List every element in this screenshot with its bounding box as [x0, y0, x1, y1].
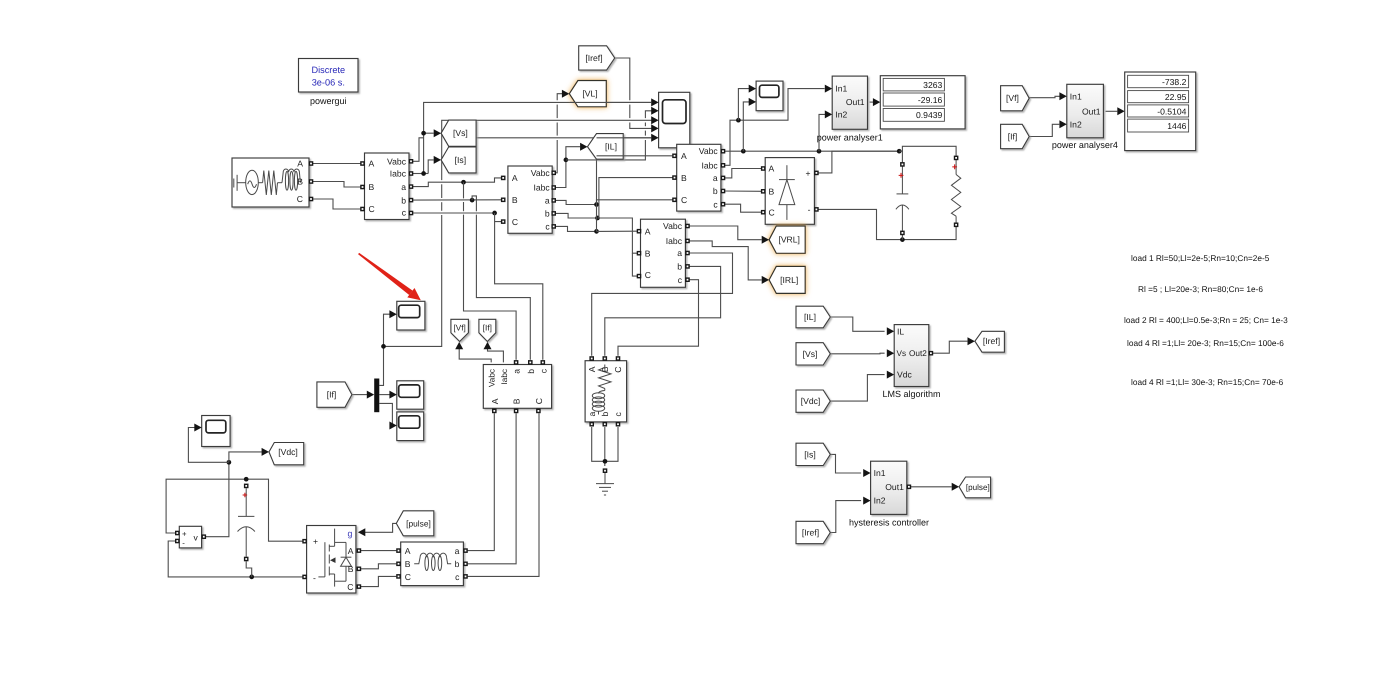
wire rail up to load resistor top [902, 146, 956, 156]
wire load RL outputs to ground node [592, 427, 605, 461]
from tag Vdc (LMS group) [796, 390, 830, 412]
svg-text:B: B [512, 195, 518, 205]
svg-text:In1: In1 [874, 468, 886, 478]
svg-text:B: B [405, 559, 411, 569]
node scope1 tap [736, 118, 741, 123]
node on Vs wire [421, 131, 426, 136]
svg-text:[If]: [If] [483, 324, 492, 333]
svg-text:+: + [182, 530, 187, 539]
wire M1 Iabc to goto Is [428, 160, 434, 174]
goto tag Vs [441, 120, 476, 146]
svg-text:a: a [401, 182, 406, 192]
wire M1 c to block M2 C with tap c [413, 212, 495, 214]
wire tap c down to M5 c [495, 222, 543, 360]
goto tag Is [441, 147, 476, 173]
powergui block [299, 59, 359, 107]
svg-text:Iabc: Iabc [533, 183, 550, 193]
wire vmeter plus to DC top rail [166, 479, 303, 541]
svg-text:C: C [347, 582, 353, 592]
from tag If (analyser4 group) [1001, 124, 1030, 148]
svg-text:+: + [952, 162, 958, 173]
hysteresis controller subsystem [849, 461, 929, 527]
svg-text:b: b [526, 369, 536, 374]
wire M2 a jog to node a [556, 200, 597, 204]
wire M1 a to block M2 A with PCC tap a [413, 178, 501, 187]
svg-text:C: C [534, 398, 544, 404]
wire riser b to M3 B [598, 178, 673, 218]
goto tag Vf (rotated down) [451, 319, 469, 341]
wire goto Iref to scope in4 (with gaps) [615, 58, 630, 100]
svg-text:A: A [645, 226, 651, 236]
wire from If tag to demux [352, 394, 368, 396]
svg-text:Iabc: Iabc [666, 236, 683, 246]
svg-text:In2: In2 [835, 109, 847, 119]
svg-text:c: c [538, 368, 548, 373]
wire riser c to M3 C [597, 200, 673, 232]
svg-text:[IRL]: [IRL] [780, 275, 798, 285]
svg-text:A: A [369, 159, 375, 169]
wire from pulse to inverter g [365, 523, 397, 532]
svg-text:B: B [348, 564, 354, 574]
svg-text:C: C [645, 270, 651, 280]
display block display1 [880, 76, 965, 129]
node ground junction [603, 459, 608, 464]
svg-text:b: b [401, 195, 406, 205]
svg-text:Vabc: Vabc [531, 168, 551, 178]
svg-text:Out1: Out1 [846, 97, 865, 107]
svg-text:A: A [348, 546, 354, 556]
svg-text:+: + [242, 490, 247, 500]
goto tag Vdc (bottom left) [269, 443, 304, 465]
svg-text:C: C [297, 194, 303, 204]
wire source C to block M1 [313, 199, 361, 209]
wire filter a up to M5 A [468, 413, 495, 550]
svg-text:Out2: Out2 [909, 349, 927, 358]
svg-text:A: A [490, 398, 500, 404]
power analyser4 subsystem [1052, 84, 1118, 150]
svg-text:a: a [512, 369, 522, 374]
svg-text:power analyser4: power analyser4 [1052, 140, 1118, 150]
svg-text:-0.5104: -0.5104 [1157, 106, 1186, 116]
svg-text:[Vdc]: [Vdc] [801, 396, 821, 406]
svg-text:[Vf]: [Vf] [454, 324, 466, 333]
from tag Iref (top) [579, 46, 615, 70]
wire demux out1 to scope in3 long riser [384, 215, 442, 346]
svg-text:power analyser1: power analyser1 [817, 132, 883, 142]
wire hysteresis Out1 to goto pulse [909, 486, 952, 488]
svg-text:[Iref]: [Iref] [983, 336, 1000, 346]
svg-text:[pulse]: [pulse] [966, 483, 990, 492]
wire M2 c jog to node c [556, 226, 597, 231]
svg-text:A: A [587, 366, 597, 372]
wire hysteresis In1 from Is tag [830, 454, 861, 473]
svg-text:[VRL]: [VRL] [778, 235, 800, 245]
wire Vf tag to analyser4 In1 [1029, 96, 1060, 97]
goto tag IRL (highlighted) [769, 266, 805, 293]
wire filter b up to M5 B [468, 413, 516, 564]
wire node a riser to M3 A (drawn over IL tag) [597, 155, 673, 157]
three-phase V-I measurement block M4 [641, 219, 686, 287]
wire node to goto Vdc [229, 452, 262, 462]
wire scope in1 segment over VL tag [570, 101, 652, 103]
wire M1 Vabc to scope in5 (stub) [413, 138, 423, 162]
svg-text:c: c [455, 572, 460, 582]
svg-text:load 4 Rl =1;Ll= 30e-3; Rn=15;: load 4 Rl =1;Ll= 30e-3; Rn=15;Cn= 70e-6 [1131, 377, 1284, 387]
node scope2 tap [741, 149, 746, 154]
svg-text:B: B [600, 366, 610, 372]
svg-text:+: + [805, 169, 810, 179]
IGBT inverter block [307, 526, 356, 594]
svg-text:B: B [369, 182, 375, 192]
node DC bottom rail capacitor tap [249, 575, 254, 580]
node on Iabc wire [421, 171, 426, 176]
wire node b horizontal to M4 bus [598, 218, 638, 253]
wire M3 a to bridge A [723, 169, 761, 178]
three-phase V-I measurement block M2 [508, 166, 552, 233]
svg-text:+: + [313, 537, 318, 547]
three-phase V-I measurement block M1 [365, 153, 410, 220]
svg-text:load 4 Rl =1;Ll= 20e-3; Rn=15;: load 4 Rl =1;Ll= 20e-3; Rn=15;Cn= 100e-6 [1127, 338, 1284, 348]
svg-text:a: a [545, 196, 550, 206]
svg-text:b: b [600, 412, 610, 417]
wire source B to block M1 [313, 182, 361, 188]
svg-text:A: A [512, 173, 518, 183]
from tag pulse (mirrored, to inverter g) [396, 511, 434, 536]
svg-text:Discrete: Discrete [311, 65, 345, 75]
svg-text:B: B [512, 398, 522, 404]
svg-text:hysteresis controller: hysteresis controller [849, 517, 929, 527]
svg-text:b: b [545, 209, 550, 219]
svg-text:C: C [681, 195, 687, 205]
display block display4 [1125, 72, 1196, 151]
goto tag VRL (highlighted) [769, 226, 805, 253]
svg-text:1446: 1446 [1167, 121, 1186, 131]
voltage measurement vmeter block [179, 526, 201, 548]
goto tag Iref (LMS output) [975, 331, 1005, 352]
svg-text:[If]: [If] [1008, 132, 1018, 142]
svg-text:b: b [677, 262, 682, 272]
svg-text:In1: In1 [835, 84, 847, 94]
wire demux out1 up to scope A [379, 314, 389, 385]
node DC rail bottom [900, 237, 905, 242]
wire M2 Iabc riser to goto IL [556, 147, 581, 188]
three-phase V-I measurement block M3 [677, 144, 721, 211]
svg-text:C: C [769, 207, 775, 217]
svg-text:[Is]: [Is] [804, 449, 815, 459]
svg-text:c: c [678, 275, 683, 285]
svg-text:[Iref]: [Iref] [802, 528, 819, 538]
arrows into big scope [651, 98, 658, 106]
svg-text:In2: In2 [874, 496, 886, 506]
wire M4 bus down to C [632, 253, 637, 276]
svg-text:Iabc: Iabc [390, 169, 407, 179]
svg-text:[If]: [If] [327, 390, 337, 400]
svg-text:B: B [681, 173, 687, 183]
svg-text:A: A [681, 151, 687, 161]
svg-text:load 2 Rl = 400;Ll=0.5e-3;Rn =: load 2 Rl = 400;Ll=0.5e-3;Rn = 25; Cn= 1… [1124, 315, 1288, 325]
node tap c [492, 211, 497, 216]
wire LMS IL from tag [830, 317, 884, 331]
wire riser a to M3 A level [596, 156, 598, 205]
svg-text:[Vs]: [Vs] [803, 349, 818, 359]
svg-text:g: g [348, 529, 353, 539]
wire filter c up to M5 C [468, 413, 539, 576]
svg-text:C: C [369, 204, 375, 214]
svg-text:B: B [297, 177, 303, 187]
node analyser In2 tap [817, 149, 822, 154]
wire M3 Vabc rail to DC load [723, 150, 899, 152]
wire M2 b jog to node b [556, 213, 598, 218]
svg-text:C: C [405, 572, 411, 582]
svg-text:IL: IL [897, 326, 904, 336]
svg-text:a: a [713, 173, 718, 183]
svg-text:[Vs]: [Vs] [453, 128, 468, 138]
wire rail to output capacitor [899, 151, 902, 162]
svg-text:B: B [769, 187, 775, 197]
wire tap up to small scope in2 [743, 102, 750, 151]
DC link capacitor branch [244, 484, 249, 489]
wire node c horizontal to M4 A [597, 230, 638, 232]
wire inverter B to filter B [361, 564, 396, 569]
svg-text:[Is]: [Is] [455, 155, 466, 165]
svg-text:c: c [613, 412, 623, 417]
wire node to scope Vdc [188, 428, 229, 463]
wire M5 Vabc to goto Vf [459, 345, 491, 363]
wire M4 a to load RL A [592, 253, 733, 356]
wire M3 b to bridge B [723, 190, 761, 192]
svg-text:In1: In1 [1070, 91, 1082, 101]
svg-text:Vabc: Vabc [488, 369, 497, 387]
svg-text:Out1: Out1 [1082, 106, 1101, 116]
svg-text:A: A [769, 164, 775, 174]
svg-text:[IL]: [IL] [804, 312, 816, 322]
svg-text:a: a [677, 248, 682, 258]
node c [594, 229, 599, 234]
small scope top [756, 81, 783, 111]
red annotation arrow [358, 253, 421, 300]
scope Vdc [202, 416, 230, 447]
node Vdc [227, 460, 232, 465]
wire If tag to analyser4 In2 [1029, 124, 1059, 136]
wire vmeter output to Vdc node [206, 462, 229, 536]
svg-text:-: - [182, 538, 185, 547]
wire M5 Iabc to goto If [488, 345, 504, 363]
diode bridge rectifier [765, 158, 814, 225]
three-phase programmable source block [232, 158, 309, 207]
filter inductor three-phase block [401, 542, 464, 586]
wire LMS Out2 to goto Iref [931, 341, 968, 353]
wire M4 c to load RL C [618, 280, 699, 356]
svg-text:Vabc: Vabc [387, 157, 407, 167]
svg-text:powergui: powergui [310, 96, 347, 106]
svg-text:Vdc: Vdc [897, 370, 913, 380]
svg-text:A: A [297, 159, 303, 169]
wire inverter C to filter C [361, 576, 396, 586]
svg-text:A: A [405, 546, 411, 556]
scope C [397, 412, 424, 441]
wire source A to block M1 [313, 163, 361, 165]
svg-text:c: c [402, 208, 407, 218]
svg-text:C: C [512, 217, 518, 227]
svg-text:C: C [613, 367, 623, 373]
from tag Vf (analyser4 group) [1001, 86, 1030, 111]
svg-text:v: v [194, 532, 199, 542]
wire analyser4 Out1 to display4 [1106, 110, 1118, 112]
demux bar [374, 379, 379, 413]
wire from IL riser to scope in2 [566, 140, 646, 160]
wire LMS Vs from tag [830, 352, 884, 355]
node tap b [470, 198, 475, 203]
svg-text:[pulse]: [pulse] [406, 518, 431, 528]
scope B [397, 381, 424, 409]
from tag IL (LMS group) [796, 306, 830, 328]
load RL three-phase branch (rotated) [585, 361, 627, 422]
svg-text:-: - [313, 573, 316, 583]
from tag Iref (hysteresis group) [796, 521, 830, 543]
svg-text:Vs: Vs [897, 349, 907, 358]
wire M4 Iabc to goto IRL [688, 241, 762, 280]
wire scope in5 segment over IL tag [597, 137, 652, 139]
node demux out1 branch [381, 344, 386, 349]
svg-text:c: c [545, 222, 550, 232]
svg-text:3263: 3263 [923, 80, 942, 90]
capacitor C-load branch [896, 167, 909, 231]
svg-text:22.95: 22.95 [1165, 92, 1187, 102]
node tap a [461, 180, 466, 185]
wire analyser1 Out1 to display1 [870, 101, 873, 103]
svg-text:Iabc: Iabc [701, 161, 718, 171]
ground symbol [603, 468, 608, 473]
wire LMS Vdc from tag [830, 375, 884, 402]
svg-text:a: a [455, 546, 460, 556]
node a [594, 202, 599, 207]
three-phase V-I measurement block M5 (rotated) [483, 365, 551, 409]
from tag If (to demux) [317, 382, 352, 407]
wire capacitor bottom stub [901, 235, 903, 240]
wire hysteresis In2 from Iref tag [830, 501, 861, 533]
wire inverter A to filter A [361, 550, 396, 552]
wire M3 c to bridge C [723, 204, 761, 212]
goto tag pulse (hysteresis output) [959, 477, 991, 498]
svg-text:-29.16: -29.16 [918, 95, 943, 105]
svg-text:b: b [455, 559, 460, 569]
wire M1 Iabc riser to goto Vs and scope in1 [413, 173, 428, 175]
wire tap up to small scope in1 [738, 89, 750, 121]
node DC rail top [897, 149, 902, 154]
svg-text:[VL]: [VL] [582, 89, 597, 99]
wire tap a down to M5 a [463, 182, 465, 198]
wire tap b staple and down to M5 b [472, 196, 476, 211]
svg-text:[Iref]: [Iref] [585, 53, 602, 63]
big scope [659, 92, 690, 148]
wire bridge minus to bottom rail [818, 209, 956, 239]
from tag Vs (LMS group) [796, 343, 830, 365]
svg-text:-738.2: -738.2 [1162, 77, 1187, 87]
svg-text:LMS algorithm: LMS algorithm [882, 389, 940, 399]
svg-text:0.9439: 0.9439 [916, 110, 943, 120]
svg-text:Vabc: Vabc [663, 221, 683, 231]
wire M2 Vabc riser to goto VL (with crossing gaps) [556, 140, 558, 173]
wire vmeter minus to DC bottom rail [168, 541, 303, 577]
from tag Is (hysteresis group) [796, 443, 830, 465]
scope A (pointed by red arrow) [397, 301, 425, 330]
wire M1 Vabc to scope in5 (main) [476, 137, 651, 139]
wire demux out3 to scope C [379, 403, 392, 425]
svg-text:[Vf]: [Vf] [1006, 93, 1019, 103]
svg-text:In2: In2 [1070, 119, 1082, 129]
svg-text:[IL]: [IL] [605, 142, 617, 152]
resistor R-load branch [951, 160, 960, 223]
svg-text:+: + [898, 170, 904, 181]
svg-text:Vabc: Vabc [699, 146, 719, 156]
node on IL riser [564, 158, 569, 163]
wire M4 b to load RL B [605, 266, 721, 355]
svg-text:3e-06 s.: 3e-06 s. [312, 78, 345, 88]
node DC top rail capacitor tap [244, 477, 249, 482]
svg-text:Iabc: Iabc [500, 369, 509, 384]
wire M1 b to block M2 B with tap b [413, 199, 501, 201]
wire bridge plus to DC rail [818, 151, 899, 173]
wire tap c jog into M2 C [495, 213, 502, 222]
goto tag IL (mid) [588, 134, 624, 160]
svg-text:[Vdc]: [Vdc] [278, 447, 298, 457]
svg-text:a: a [587, 412, 597, 417]
svg-text:load 1 Rl=50;Ll=2e-5;Rn=10;Cn=: load 1 Rl=50;Ll=2e-5;Rn=10;Cn=2e-5 [1131, 253, 1270, 263]
svg-text:-: - [808, 205, 811, 215]
svg-text:B: B [645, 248, 651, 258]
goto tag VL (highlighted) [569, 81, 606, 107]
wire demux out2 to scope B [379, 394, 389, 396]
svg-text:Out1: Out1 [885, 482, 904, 492]
svg-text:c: c [713, 199, 718, 209]
goto tag If (rotated down) [479, 319, 496, 341]
wire M3 Iabc up across to scope and analyser1 [723, 89, 825, 166]
wire tap up to analyser1 In2 [819, 114, 826, 151]
power analyser1 subsystem [817, 76, 883, 142]
LMS algorithm subsystem [882, 325, 940, 400]
node b [595, 216, 600, 221]
wire M4 Vabc to goto VRL [688, 226, 762, 240]
svg-text:Rl =5 ; Ll=20e-3; Rn=80;Cn= 1e: Rl =5 ; Ll=20e-3; Rn=80;Cn= 1e-6 [1138, 284, 1263, 294]
svg-text:b: b [713, 186, 718, 196]
